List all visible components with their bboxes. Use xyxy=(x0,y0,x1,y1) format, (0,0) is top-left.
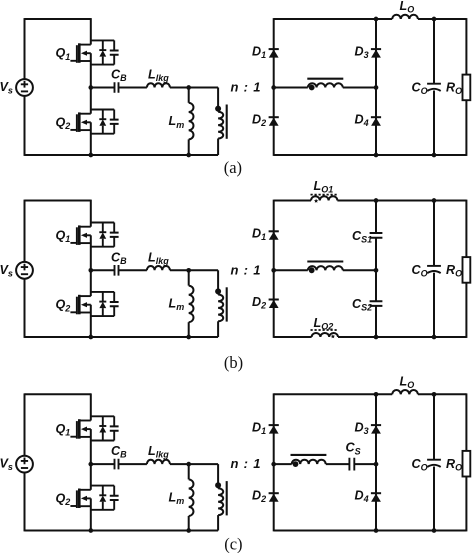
transistor Q1 (a) xyxy=(70,40,118,64)
wire: half-bridge leg lower (c) xyxy=(90,498,92,531)
wire: LO to right rail (c) xyxy=(418,393,467,395)
wire: D1-D2 leg (a) xyxy=(273,18,275,156)
transformer secondary polarity dot (c) xyxy=(293,461,299,467)
wire: half-bridge leg upper (b) xyxy=(90,200,92,227)
wire: bottom rail left circuit (a) xyxy=(25,154,219,156)
transformer core bar (a) xyxy=(226,105,228,139)
node: secondary right junction (a) xyxy=(374,85,379,90)
inductor LO2 (b) xyxy=(312,333,338,337)
node: Lm top junction (a) xyxy=(186,85,191,90)
capacitor CS2 (b) xyxy=(370,301,383,306)
inductor LO (c) xyxy=(392,390,418,394)
wire: rectifier top rail (c) xyxy=(274,393,393,395)
transistor Q1 (b) xyxy=(70,223,118,247)
wire: half-bridge leg lower (a) xyxy=(90,122,92,156)
node: half-bridge leg bottom junction (a) xyxy=(88,153,93,158)
diode D4 (c) xyxy=(371,493,381,502)
diode D1 (b) xyxy=(269,231,279,240)
transformer primary winding (b) xyxy=(217,270,219,294)
node: CS2 leg bottom junction (b) xyxy=(374,335,379,340)
node: Lm top junction (c) xyxy=(186,462,191,467)
node: secondary left junction (b) xyxy=(271,268,276,273)
wire: rectifier bottom rail left part (b) xyxy=(274,336,312,338)
wire: LO to right rail (a) xyxy=(418,18,467,20)
wire: Llkg to node (c) xyxy=(170,463,218,465)
node: secondary right junction (b) xyxy=(374,268,379,273)
node: CO bottom junction (c) xyxy=(432,528,437,533)
wire: secondary right lead (a) xyxy=(343,87,376,89)
diode D2 (c) xyxy=(269,493,279,502)
wire: rectifier bottom rail right part (b) xyxy=(338,336,466,338)
wire: rectifier top rail (a) xyxy=(274,18,393,20)
wire: top rail left circuit (a) xyxy=(25,18,91,20)
svg-text:(b): (b) xyxy=(224,353,243,372)
transistor Q2 (b) xyxy=(70,292,118,316)
wire: right rail upper (a) xyxy=(465,18,467,75)
node: half-bridge midpoint (a) xyxy=(88,85,93,90)
diode D2 (b) xyxy=(269,300,279,309)
svg-text:n : 1: n : 1 xyxy=(231,262,262,277)
wire: half-bridge leg middle (b) xyxy=(90,235,92,296)
transformer secondary core bar (c) xyxy=(291,454,327,456)
capacitor CO (b) xyxy=(427,265,441,267)
capacitor CS1 (b) xyxy=(370,233,383,238)
node: CO bottom junction (a) xyxy=(432,153,437,158)
node: CO top junction (a) xyxy=(432,17,437,22)
transistor Q1 (c) xyxy=(70,416,118,440)
wire: top rail left circuit (b) xyxy=(25,200,91,202)
wire: rectifier top rail left part (b) xyxy=(274,200,311,202)
diode D2 (a) xyxy=(269,117,279,126)
wire: midpoint to CB (b) xyxy=(91,269,115,271)
wire: secondary left lead (a) xyxy=(274,87,308,89)
node: Lm top junction (b) xyxy=(186,268,191,273)
transformer primary polarity dot (c) xyxy=(215,482,221,488)
wire: CB to Llkg (c) xyxy=(119,463,147,465)
transistor Q2 (a) xyxy=(70,110,118,134)
diode D1 (a) xyxy=(269,49,279,58)
transformer primary polarity dot (b) xyxy=(215,288,221,294)
coupled-inductor dashed core LO1 (b) xyxy=(311,194,339,196)
wire: D1-D2 leg (c) xyxy=(273,393,275,531)
inductor Llkg (c) xyxy=(147,460,170,464)
inductor Lm (a) xyxy=(188,88,190,103)
node: secondary right junction (c) xyxy=(374,462,379,467)
capacitor CB (c) xyxy=(115,459,119,470)
transformer primary winding (c) xyxy=(217,464,219,488)
voltage source Vs (b) xyxy=(16,262,33,279)
inductor Llkg (b) xyxy=(147,266,170,270)
voltage source Vs (c) xyxy=(16,456,33,473)
diode D4 (a) xyxy=(371,117,381,126)
node: CS1 leg top junction (b) xyxy=(374,198,379,203)
wire: CO branch (c) xyxy=(433,394,435,459)
wire: half-bridge leg middle (c) xyxy=(90,429,92,490)
wire: Llkg to node (b) xyxy=(170,269,218,271)
wire: D3-D4 leg (c) xyxy=(375,394,377,530)
wire: CS1-CS2 leg (b) xyxy=(375,201,377,234)
wire: right rail lower (b) xyxy=(465,283,467,338)
coupling mark LO1 (b) xyxy=(314,199,318,203)
wire: top rail left circuit (c) xyxy=(25,393,91,395)
wire: bottom rail left circuit (c) xyxy=(25,530,219,532)
inductor Lm (c) xyxy=(188,464,190,479)
wire: D3-D4 leg (a) xyxy=(375,19,377,155)
node: Lm bottom junction (b) xyxy=(186,335,191,340)
wire: right rail upper (c) xyxy=(465,393,467,451)
node: CO top junction (b) xyxy=(432,198,437,203)
transformer secondary winding (c) xyxy=(292,460,326,464)
diode D1 (c) xyxy=(269,425,279,434)
node: Lm bottom junction (a) xyxy=(186,153,191,158)
wire: CO branch (b) xyxy=(433,201,435,266)
wire: left rail upper (b) xyxy=(24,200,26,262)
capacitor CS (c) xyxy=(349,458,354,471)
wire: half-bridge leg lower (b) xyxy=(90,305,92,338)
transformer secondary polarity dot (a) xyxy=(309,85,315,91)
inductor LO (a) xyxy=(392,15,418,19)
capacitor CO (c) xyxy=(427,459,441,461)
svg-text:n : 1: n : 1 xyxy=(231,80,262,95)
node: D3 leg top junction (c) xyxy=(374,392,379,397)
wire: right rail upper (b) xyxy=(465,200,467,258)
resistor RO (c) xyxy=(463,451,471,477)
transistor Q2 (c) xyxy=(70,486,118,510)
transformer secondary core bar (b) xyxy=(307,260,343,262)
wire: D1-D2 leg (b) xyxy=(273,200,275,338)
svg-text:(a): (a) xyxy=(224,158,242,177)
node: D4 leg bottom junction (a) xyxy=(374,153,379,158)
node: Lm bottom junction (c) xyxy=(186,528,191,533)
transformer secondary polarity dot (b) xyxy=(309,267,315,273)
node: half-bridge leg bottom junction (c) xyxy=(88,528,93,533)
node: secondary left junction (c) xyxy=(271,462,276,467)
node: half-bridge leg bottom junction (b) xyxy=(88,335,93,340)
transformer secondary winding (a) xyxy=(308,83,343,87)
wire: half-bridge leg middle (a) xyxy=(90,53,92,113)
node: D3 leg top junction (a) xyxy=(374,17,379,22)
wire: rectifier bottom rail (c) xyxy=(274,530,467,532)
resistor RO (a) xyxy=(463,75,471,101)
wire: rectifier top rail right part (b) xyxy=(337,200,466,202)
inductor Lm (b) xyxy=(188,270,190,285)
wire: left rail lower (b) xyxy=(24,279,26,338)
wire: CB to Llkg (a) xyxy=(119,87,147,89)
wire: left rail lower (c) xyxy=(24,472,26,531)
wire: Llkg to node (a) xyxy=(170,87,218,89)
wire: secondary left lead (c) xyxy=(274,463,292,465)
wire: right rail lower (a) xyxy=(465,100,467,156)
svg-text:n : 1: n : 1 xyxy=(231,456,262,471)
wire: left rail upper (c) xyxy=(24,393,26,455)
transformer secondary winding (b) xyxy=(308,266,343,270)
resistor RO (b) xyxy=(463,257,471,283)
transformer primary winding (a) xyxy=(217,88,219,112)
node: CO bottom junction (b) xyxy=(432,335,437,340)
capacitor CO (a) xyxy=(427,83,441,85)
wire: left rail lower (a) xyxy=(24,96,26,156)
diode D3 (c) xyxy=(371,425,381,434)
node: half-bridge midpoint (c) xyxy=(88,462,93,467)
inductor Llkg (a) xyxy=(147,83,170,87)
transformer secondary core bar (a) xyxy=(307,78,343,80)
svg-text:(c): (c) xyxy=(224,534,242,553)
node: secondary left junction (a) xyxy=(271,85,276,90)
coupled-inductor dashed core LO2 (b) xyxy=(311,329,339,331)
transformer core bar (c) xyxy=(226,481,228,515)
transformer primary polarity dot (a) xyxy=(215,106,221,112)
coupling mark LO2 (b) xyxy=(331,334,335,338)
wire: midpoint to CB (c) xyxy=(91,463,115,465)
wire: CS to leg (c) xyxy=(354,463,376,465)
transformer core bar (b) xyxy=(226,287,228,321)
wire: CO branch (a) xyxy=(433,19,435,84)
diode D3 (a) xyxy=(371,49,381,58)
voltage source Vs (a) xyxy=(16,79,33,96)
wire: secondary to CS (c) xyxy=(326,463,350,465)
wire: secondary right lead (b) xyxy=(343,269,376,271)
wire: half-bridge leg upper (a) xyxy=(90,18,92,44)
wire: half-bridge leg upper (c) xyxy=(90,393,92,420)
wire: left rail upper (a) xyxy=(24,18,26,79)
capacitor CB (b) xyxy=(115,265,119,276)
inductor LO1 (b) xyxy=(311,196,337,200)
wire: rectifier bottom rail (a) xyxy=(274,154,467,156)
wire: CB to Llkg (b) xyxy=(119,269,147,271)
node: D4 leg bottom junction (c) xyxy=(374,528,379,533)
node: CO top junction (c) xyxy=(432,392,437,397)
node: half-bridge midpoint (b) xyxy=(88,268,93,273)
wire: right rail lower (c) xyxy=(465,477,467,532)
wire: midpoint to CB (a) xyxy=(91,87,115,89)
wire: bottom rail left circuit (b) xyxy=(25,336,219,338)
wire: secondary left lead (b) xyxy=(274,269,308,271)
capacitor CB (a) xyxy=(115,82,119,93)
